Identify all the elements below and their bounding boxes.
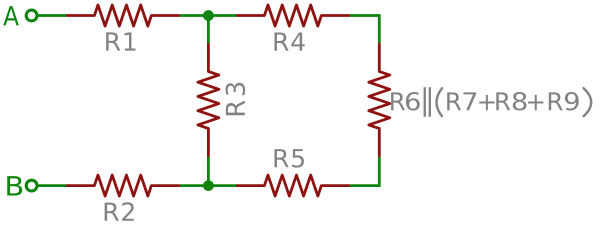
top junction node	[203, 10, 214, 21]
resistor R4	[236, 5, 350, 26]
label R6 closing parenthesis	[584, 88, 592, 116]
label R3	[226, 83, 246, 115]
node A terminal label	[3, 6, 19, 25]
resistor R1	[66, 5, 180, 26]
node B terminal pin circle	[26, 180, 37, 191]
wire top junction down to R3	[207, 16, 210, 44]
node A terminal pin circle	[26, 10, 37, 21]
label R5	[274, 149, 303, 168]
node B terminal label	[7, 176, 22, 195]
wire R1 to top junction to R4	[180, 14, 237, 17]
resistor R3	[198, 43, 219, 157]
label R6||(R7+R8+R9)	[391, 87, 579, 117]
resistor R5	[236, 175, 350, 196]
bottom junction node	[203, 180, 214, 191]
label R2	[105, 202, 134, 221]
resistor R2	[66, 175, 180, 196]
wire A to R1	[38, 14, 66, 17]
wire R2 to B	[38, 184, 66, 187]
wire R4 to top-right corner down to R6	[350, 16, 380, 44]
wire R5 to bottom junction to R2	[180, 184, 237, 187]
wire R3 down to bottom junction	[207, 157, 210, 186]
label R6 opening parenthesis	[437, 88, 443, 116]
label R4	[274, 32, 304, 50]
wire R6 down to bottom-right corner to R5	[350, 157, 380, 186]
label R1	[106, 32, 135, 50]
resistor R6 parallel combination	[369, 43, 390, 157]
